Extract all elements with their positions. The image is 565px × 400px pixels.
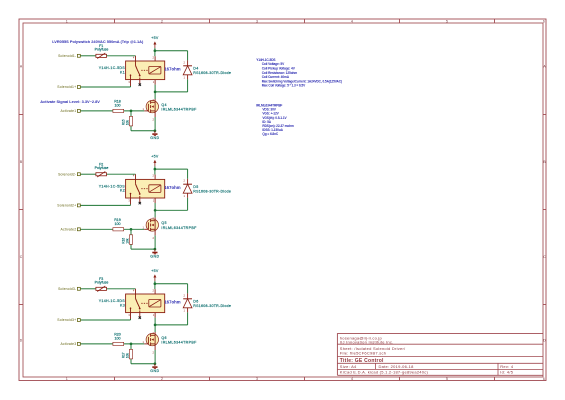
junction +5V node block 2	[154, 168, 157, 171]
relay K1 armature	[136, 66, 140, 76]
wire polyfuse F1 to relay K1 pin 4	[107, 55, 136, 57]
svg-text:Id: 4/5: Id: 4/5	[500, 370, 513, 375]
svg-text:Solenoid1-: Solenoid1-	[58, 54, 76, 58]
svg-text:Solenoid3+: Solenoid3+	[57, 318, 76, 322]
resistor R20	[113, 342, 124, 345]
svg-text:+5V: +5V	[151, 154, 159, 158]
frame row tick right	[543, 209, 546, 211]
svg-text:Activate1: Activate1	[61, 109, 77, 113]
wire relay K1 pin 3 down	[130, 86, 132, 87]
svg-text:Q6: Q6	[161, 336, 166, 340]
wire relay K2 coil pin 1 to Q5 drain	[154, 203, 156, 217]
svg-text:4: 4	[351, 377, 353, 381]
wire ground rail block 1	[131, 130, 155, 132]
power symbol +5V block 3	[153, 274, 156, 281]
svg-text:Qg = 6.8nC: Qg = 6.8nC	[262, 132, 279, 136]
wire resistor R17 to ground rail	[130, 359, 132, 364]
svg-text:Size: A4: Size: A4	[340, 364, 357, 369]
title block size/date divider	[375, 363, 377, 369]
svg-text:Solenoid1+: Solenoid1+	[57, 85, 76, 89]
hierarchical label Activate2	[77, 228, 80, 231]
svg-text:IRLML6344TRPBF: IRLML6344TRPBF	[161, 226, 197, 230]
svg-text:167ohm: 167ohm	[164, 185, 180, 190]
svg-text:Y14H-1C-5DS: Y14H-1C-5DS	[99, 184, 126, 188]
resistor R18	[113, 109, 124, 112]
svg-text:1: 1	[66, 19, 68, 23]
wire relay K3 pin 3 down	[130, 319, 132, 320]
hierarchical label Solenoid2-	[77, 173, 80, 176]
wire resistor R19 to Q5 gate	[124, 228, 145, 230]
svg-text:K1: K1	[120, 70, 125, 74]
svg-text:Activate3: Activate3	[61, 342, 77, 346]
title block rev column divider	[497, 363, 499, 375]
svg-text:+5V: +5V	[151, 269, 159, 273]
wire diode D6 anode to coil node	[155, 324, 188, 326]
polyfuse F3	[96, 286, 107, 292]
relay K1 coil pin 1	[154, 80, 156, 85]
wire down to diode D5 cathode pin	[187, 169, 189, 179]
wire Q6 source to ground	[154, 350, 156, 364]
wire polyfuse F2 to relay K2 pin 4	[107, 173, 136, 175]
svg-text:5: 5	[446, 377, 448, 381]
frame column tick bottom	[399, 377, 401, 381]
resistor R19	[113, 228, 124, 231]
svg-text:KiCad E.D.A. kicad (5.1.2-187: KiCad E.D.A. kicad (5.1.2-187-ge89ea240c…	[340, 370, 429, 375]
frame column tick top	[304, 19, 306, 23]
frame column tick bottom	[494, 377, 496, 381]
svg-text:Solenoid2+: Solenoid2+	[57, 204, 76, 208]
title block divider 1	[337, 343, 543, 345]
relay K3 armature	[136, 299, 140, 309]
diode D4	[187, 60, 189, 65]
title block divider 3	[337, 362, 543, 364]
svg-text:Date: 2019-06-18: Date: 2019-06-18	[379, 364, 415, 369]
svg-text:GND: GND	[150, 136, 159, 140]
relay K2 armature	[136, 184, 140, 194]
relay K3 coil pin 2	[154, 289, 156, 294]
junction ground node block 2	[154, 248, 157, 251]
diode D5	[187, 179, 189, 184]
svg-text:4: 4	[351, 19, 353, 23]
relay K1 body	[126, 61, 165, 80]
wire down to diode D4 cathode pin	[187, 51, 189, 61]
wire resistor R18 to Q4 gate	[124, 110, 145, 112]
relay K3 NO pin no-connect	[139, 311, 141, 318]
resistor R16	[129, 235, 132, 245]
wire Activate1 to resistor R18	[80, 110, 113, 112]
wire resistor R16 to ground rail	[130, 244, 132, 249]
junction gate node block 2	[130, 228, 133, 231]
relay K2 body	[126, 179, 165, 198]
svg-text:Max Coil Voltage: 5 * 1.3 = 6.: Max Coil Voltage: 5 * 1.3 = 6.5V	[262, 84, 306, 88]
title block outline	[337, 334, 543, 376]
hierarchical label Solenoid2+	[77, 204, 80, 207]
relay K2 coil pin 2	[154, 175, 156, 180]
frame column tick bottom	[209, 377, 211, 381]
svg-text:D6: D6	[193, 300, 198, 304]
svg-text:3: 3	[256, 19, 258, 23]
polyfuse F2	[96, 171, 107, 177]
svg-text:GND: GND	[150, 254, 159, 258]
wire Activate3 to resistor R20	[80, 343, 113, 345]
wire gate node down to resistor R16	[130, 229, 132, 235]
title block divider 4	[337, 368, 543, 370]
wire +5V rail to diode D5 cathode	[155, 168, 188, 170]
svg-text:D5: D5	[193, 185, 198, 189]
wire Solenoid1- to polyfuse F1	[80, 55, 96, 57]
relay K3 mechanical link dashes	[141, 302, 149, 304]
transistor Q5	[146, 219, 158, 231]
wire diode D5 anode down	[187, 198, 189, 211]
svg-text:File: file5CF6C9B7.sch: File: file5CF6C9B7.sch	[340, 351, 386, 356]
wire Q4 source to ground	[154, 117, 156, 131]
relay K3 coil	[149, 299, 161, 307]
wire +5V rail to diode D4 cathode	[155, 50, 188, 52]
svg-text:Solenoid3-: Solenoid3-	[58, 287, 76, 291]
svg-text:Y14H-1C-5DS: Y14H-1C-5DS	[99, 299, 126, 303]
wire Q5 source to ground	[154, 235, 156, 249]
relay K2 NO pin no-connect	[139, 196, 141, 203]
frame column tick bottom	[114, 377, 116, 381]
junction coil/diode/drain node block 2	[154, 209, 157, 212]
power symbol +5V block 2	[153, 160, 156, 167]
svg-text:IIJ Innovation Institute Inc.: IIJ Innovation Institute Inc.	[340, 339, 394, 344]
svg-text:+5V: +5V	[151, 36, 159, 40]
svg-text:Solenoid2-: Solenoid2-	[58, 172, 76, 176]
svg-text:GND: GND	[150, 369, 159, 373]
frame row tick left	[19, 304, 23, 306]
svg-text:10k: 10k	[125, 120, 129, 126]
svg-text:1: 1	[66, 377, 68, 381]
transistor Q4	[146, 100, 158, 112]
svg-text:10k: 10k	[125, 353, 129, 359]
frame column tick bottom	[304, 377, 306, 381]
svg-text:10k: 10k	[125, 238, 129, 244]
hierarchical label Solenoid1+	[77, 86, 80, 89]
frame row tick left	[19, 209, 23, 211]
svg-text:IRLML6344TRPBF: IRLML6344TRPBF	[161, 108, 197, 112]
hierarchical label Activate3	[77, 342, 80, 345]
relay K3 body	[126, 294, 165, 313]
hierarchical label Solenoid3-	[77, 287, 80, 290]
relay K1 coil	[149, 66, 161, 74]
svg-text:2: 2	[161, 19, 163, 23]
svg-text:167ohm: 167ohm	[164, 67, 180, 72]
wire +5V down to relay K3 coil pin 2	[154, 281, 156, 289]
relay K2 coil pin 1	[154, 198, 156, 203]
svg-text:Rev: 4: Rev: 4	[500, 364, 514, 369]
ground symbol block 1	[152, 131, 157, 136]
svg-text:IRLML6344TRPBF: IRLML6344TRPBF	[161, 341, 197, 345]
svg-text:100: 100	[115, 222, 121, 226]
svg-text:6: 6	[543, 19, 545, 23]
svg-text:Activate Signal Level: 3.3V~2.: Activate Signal Level: 3.3V~2.8V	[40, 99, 100, 104]
wire to Solenoid2+ label	[80, 204, 130, 206]
wire +5V down to relay K2 coil pin 2	[154, 166, 156, 174]
svg-text:3: 3	[256, 377, 258, 381]
frame row tick left	[19, 114, 23, 116]
title block bottom line	[337, 374, 543, 376]
svg-text:K2: K2	[120, 189, 125, 193]
junction gate node block 1	[130, 110, 133, 113]
wire gate node down to resistor R15	[130, 111, 132, 117]
relay K1 coil pin 2	[154, 56, 156, 61]
hierarchical label Solenoid3+	[77, 319, 80, 322]
frame column tick top	[494, 19, 496, 23]
svg-text:6: 6	[543, 377, 545, 381]
svg-text:Y14H-1C-5DS: Y14H-1C-5DS	[99, 66, 126, 70]
wire resistor R15 to ground rail	[130, 126, 132, 131]
relay K3 coil pin 1	[154, 313, 156, 318]
wire ground rail block 2	[131, 248, 155, 250]
junction coil/diode/drain node block 3	[154, 324, 157, 327]
junction +5V node block 1	[154, 49, 157, 52]
svg-text:LVR055S Polyswitch 240VAC 550m: LVR055S Polyswitch 240VAC 550mA (Trip @1…	[52, 39, 144, 44]
svg-text:Polyfuse: Polyfuse	[95, 48, 109, 52]
wire diode D5 anode to coil node	[155, 209, 188, 211]
wire Solenoid3- to polyfuse F3	[80, 288, 96, 290]
relay K1 NO pin no-connect	[139, 78, 141, 85]
relay K1 mechanical link dashes	[141, 69, 149, 71]
wire diode D4 anode to coil node	[155, 91, 188, 93]
wire to Solenoid3+ label	[80, 319, 130, 321]
wire polyfuse F3 to relay K3 pin 4	[107, 288, 136, 290]
hierarchical label Activate1	[77, 109, 80, 112]
relay K2 NC contact pin 3	[130, 193, 132, 204]
junction +5V node block 3	[154, 282, 157, 285]
svg-text:100: 100	[115, 103, 121, 107]
wire Activate2 to resistor R19	[80, 228, 113, 230]
wire +5V down to relay K1 coil pin 2	[154, 48, 156, 56]
relay K3 pin 4 common	[135, 289, 137, 299]
svg-text:167ohm: 167ohm	[164, 300, 180, 305]
svg-text:100: 100	[115, 336, 121, 340]
relay K2 coil	[149, 185, 161, 193]
relay K3 NC contact pin 3	[130, 308, 132, 319]
svg-text:Q5: Q5	[161, 221, 166, 225]
polyfuse F1	[96, 53, 107, 59]
wire relay K2 pin 3 down	[130, 204, 132, 205]
relay K1 pin 4 common	[135, 56, 137, 66]
svg-text:D4: D4	[193, 67, 198, 71]
svg-text:RS1608-30TR-Diode: RS1608-30TR-Diode	[193, 189, 231, 193]
junction ground node block 3	[154, 362, 157, 365]
relay K2 mechanical link dashes	[141, 188, 149, 190]
svg-text:Polyfuse: Polyfuse	[95, 166, 109, 170]
wire diode D6 anode down	[187, 312, 189, 325]
wire +5V rail to diode D6 cathode	[155, 283, 188, 285]
junction coil/diode/drain node block 1	[154, 91, 157, 94]
wire ground rail block 3	[131, 363, 155, 365]
wire to Solenoid1+ label	[80, 86, 130, 88]
junction ground node block 1	[154, 129, 157, 132]
title block divider 2	[337, 355, 543, 357]
resistor R17	[129, 349, 132, 359]
hierarchical label Solenoid1-	[77, 54, 80, 57]
frame row tick right	[543, 304, 546, 306]
transistor Q6	[146, 333, 158, 345]
svg-text:RS1608-30TR-Diode: RS1608-30TR-Diode	[193, 71, 231, 75]
wire gate node down to resistor R17	[130, 344, 132, 350]
frame column tick top	[209, 19, 211, 23]
junction gate node block 3	[130, 343, 133, 346]
svg-text:Q4: Q4	[161, 103, 166, 107]
wire relay K1 coil pin 1 to Q4 drain	[154, 85, 156, 99]
svg-text:Polyfuse: Polyfuse	[95, 281, 109, 285]
frame column tick top	[114, 19, 116, 23]
wire down to diode D6 cathode pin	[187, 284, 189, 294]
resistor R15	[129, 116, 132, 126]
wire Solenoid2- to polyfuse F2	[80, 173, 96, 175]
power symbol +5V block 1	[153, 41, 156, 48]
svg-text:2: 2	[161, 377, 163, 381]
svg-text:RS1608-30TR-Diode: RS1608-30TR-Diode	[193, 304, 231, 308]
svg-text:Activate2: Activate2	[61, 228, 77, 232]
wire resistor R20 to Q6 gate	[124, 343, 145, 345]
wire relay K3 coil pin 1 to Q6 drain	[154, 318, 156, 332]
ground symbol block 2	[152, 249, 157, 254]
frame column tick top	[399, 19, 401, 23]
relay K1 NC contact pin 3	[130, 75, 132, 86]
frame row tick right	[543, 114, 546, 116]
svg-text:K3: K3	[120, 303, 125, 307]
ground symbol block 3	[152, 364, 157, 369]
relay K2 pin 4 common	[135, 174, 137, 184]
svg-text:5: 5	[446, 19, 448, 23]
wire diode D4 anode down	[187, 79, 189, 92]
diode D6	[187, 293, 189, 298]
